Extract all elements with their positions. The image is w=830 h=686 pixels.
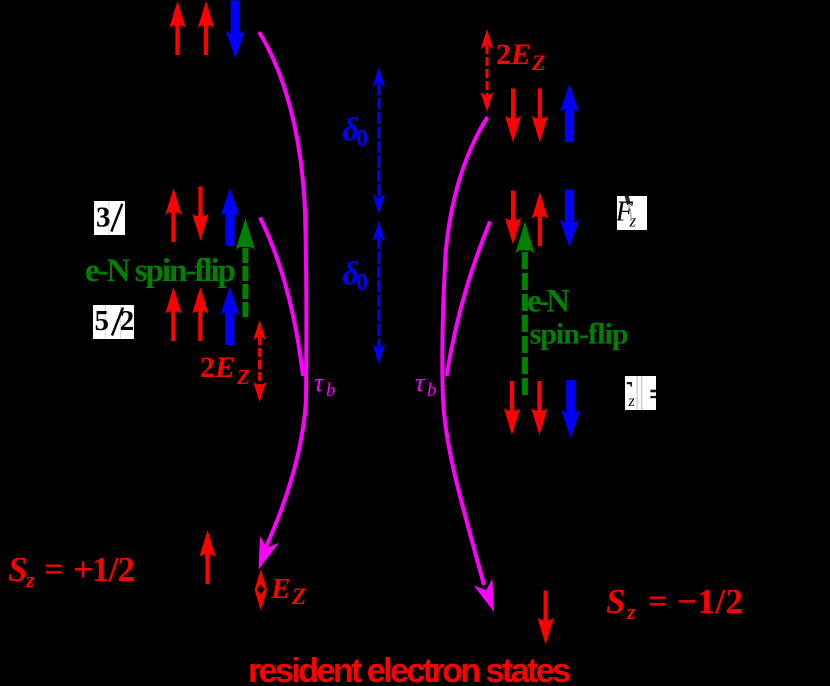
3/2 level: red spin-down arrow (192, 187, 208, 241)
5/2 level: blue spin-up arrow (220, 287, 239, 345)
top-left level: red spin-up arrow 2 (198, 1, 214, 55)
white box garbled label (right lower) (625, 376, 656, 410)
bottom-right level: red spin-down arrow 2 (531, 381, 547, 435)
bottom-right level: blue spin-down arrow (561, 380, 580, 438)
top-right level: red spin-down arrow 1 (505, 89, 521, 143)
Fz level: red spin-up arrow (532, 192, 548, 246)
svg-text:2: 2 (200, 351, 215, 384)
svg-text:=: = (44, 551, 63, 588)
svg-text:resident electron states: resident electron states (248, 652, 571, 686)
white box label 5/2 (93, 305, 134, 339)
3/2 level: green e-N spin-flip arrowhead (236, 218, 255, 250)
top-left level: red spin-up arrow 1 (169, 1, 185, 55)
svg-text:z: z (629, 212, 637, 231)
svg-text:+1/2: +1/2 (73, 550, 135, 589)
left 2EZ dashed double arrow (258, 336, 261, 386)
magenta trion curve right outer (442, 117, 487, 585)
magenta arrowhead right (474, 579, 504, 616)
svg-text:2: 2 (120, 305, 135, 337)
top-right level: blue spin-up arrow (560, 84, 579, 142)
svg-text:−1/2: −1/2 (677, 582, 743, 621)
top-left level: blue spin-down arrow (226, 1, 245, 59)
right 2EZ dashed double arrow (486, 45, 489, 96)
blue delta0 dashed double arrow (upper) (377, 83, 380, 198)
svg-text:z: z (626, 599, 636, 624)
white box label Fz (617, 196, 647, 230)
magenta trion curve left outer (259, 32, 306, 547)
svg-text:b: b (326, 380, 336, 401)
svg-text:e-N: e-N (527, 284, 570, 320)
svg-text:5: 5 (95, 305, 110, 337)
top-right level: red spin-down arrow 2 (532, 89, 548, 143)
svg-text:Z: Z (531, 50, 545, 75)
magenta trion curve right inner (447, 222, 491, 377)
svg-text:E: E (214, 351, 235, 384)
svg-text:3: 3 (96, 202, 111, 234)
Fz level: red spin-down arrow (505, 191, 521, 245)
svg-text:Z: Z (236, 365, 250, 389)
3/2 level: blue spin-up arrow (220, 188, 239, 246)
magenta trion curve left inner (260, 218, 303, 377)
3/2 level: red spin-up arrow (165, 188, 181, 242)
blue delta0 dashed double arrow (lower) (377, 237, 380, 348)
svg-text:0: 0 (356, 270, 368, 296)
svg-text:spin-flip: spin-flip (530, 318, 629, 351)
svg-text:z: z (628, 393, 636, 410)
svg-text:E: E (510, 38, 531, 71)
svg-text:=: = (648, 583, 667, 620)
magenta arrowhead left (249, 536, 279, 573)
5/2 level: red spin-up arrow 1 (165, 287, 181, 341)
svg-text:S: S (8, 550, 27, 589)
svg-text:z: z (25, 567, 35, 592)
svg-text:2: 2 (496, 38, 511, 71)
svg-text:e-N spin-flip: e-N spin-flip (85, 253, 236, 289)
svg-text:b: b (427, 380, 437, 401)
EZ double arrowhead pair (255, 569, 267, 590)
3/2 level: green dashed shaft (242, 248, 248, 317)
Fz level: green e-N spin-flip arrowhead (515, 222, 534, 254)
white box label 3/ (94, 201, 125, 235)
svg-text:S: S (606, 582, 625, 621)
svg-text:0: 0 (356, 126, 368, 152)
resident state left: red spin-up arrow (199, 530, 215, 584)
5/2 level: red spin-up arrow 2 (192, 287, 208, 341)
svg-text:Z: Z (291, 584, 306, 609)
bottom-right level: red spin-down arrow 1 (504, 381, 520, 435)
Fz level: green dashed shaft (522, 252, 528, 395)
Fz level: blue spin-down arrow (560, 190, 579, 248)
resident state right: red spin-down arrow (537, 591, 553, 645)
svg-text:E: E (270, 573, 290, 605)
